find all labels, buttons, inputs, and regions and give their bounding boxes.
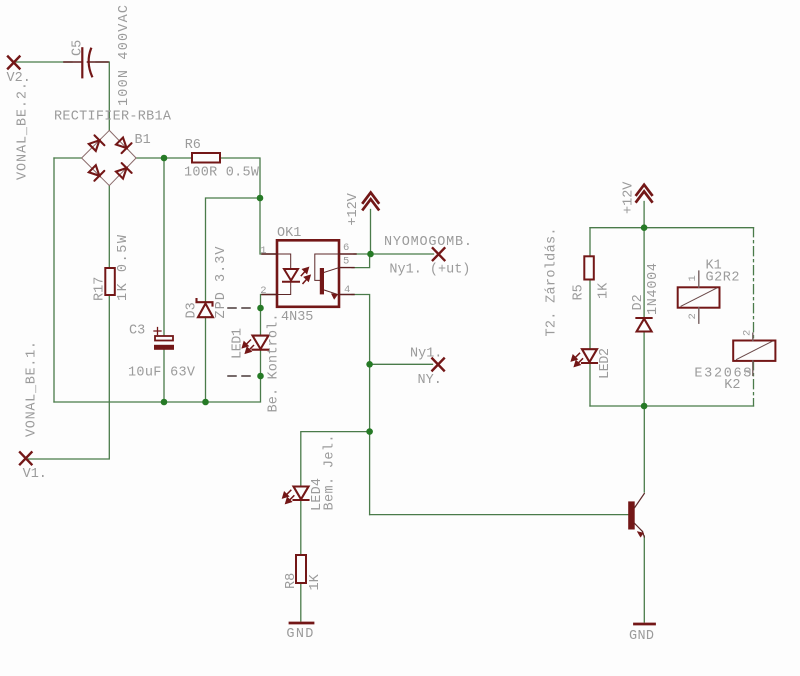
node R6 output [257, 195, 264, 202]
relay coil K2 [733, 333, 775, 375]
pin V1 (X symbol) [20, 452, 32, 464]
wire LED2 to bottom rail [589, 364, 591, 406]
svg-text:1K: 1K [597, 282, 612, 299]
wire OK1 pin5 up to node [352, 255, 370, 268]
wire dash-dot relay link [753, 228, 755, 406]
ground GND right [635, 623, 655, 626]
zener diode D3 [197, 299, 214, 317]
svg-text:R17: R17 [93, 277, 108, 301]
wire node to LED4 [301, 432, 370, 487]
diode bottom-left [89, 165, 105, 181]
node relay top [641, 224, 648, 231]
wire node to OK1 pin1 [260, 198, 276, 254]
supply +12V arrow left [363, 193, 378, 210]
wire bottom rail [54, 376, 261, 402]
svg-text:Be. Kontrol.: Be. Kontrol. [267, 314, 282, 413]
node LED1 top [257, 305, 264, 312]
transistor Q1 collector/emitter [635, 494, 645, 538]
wire +12V left down to node [370, 210, 372, 255]
svg-text:1N4004: 1N4004 [646, 263, 661, 315]
LED LED4 [283, 487, 309, 504]
svg-text:V1.: V1. [23, 467, 47, 482]
diode top-right [116, 138, 132, 154]
wire transistor collector [643, 406, 645, 492]
svg-text:+12V: +12V [346, 192, 361, 225]
wire D2 bottom [643, 332, 645, 406]
optocoupler OK1 internal transistor [315, 254, 339, 294]
optocoupler OK1 box [277, 240, 339, 306]
dashed link upper (LED1 top) [228, 307, 253, 309]
node relay bottom [641, 403, 648, 410]
wire bridge bottom through R17 to V1 [108, 186, 110, 268]
svg-text:10uF 63V: 10uF 63V [128, 366, 196, 381]
svg-text:GND: GND [286, 627, 313, 642]
svg-text:2: 2 [260, 285, 266, 297]
wire C3 bottom to rail [163, 350, 165, 402]
svg-text:2: 2 [687, 313, 699, 319]
rectifier B1 diamond outline [82, 130, 137, 185]
wire transistor emitter to GND [643, 536, 645, 622]
supply +12V arrow right [636, 185, 651, 202]
diode top-left [89, 135, 105, 151]
svg-text:R5: R5 [572, 284, 587, 300]
svg-text:100R 0.5W: 100R 0.5W [184, 166, 260, 181]
wire R8 to GND [300, 583, 302, 621]
optocoupler OK1 internal LED [277, 254, 291, 295]
wire base to transistor [370, 514, 628, 516]
pin NY (X symbol) [432, 359, 444, 371]
svg-text:LED1: LED1 [231, 328, 246, 359]
wire LED1 bottom [260, 350, 262, 376]
wire left rail vertical [53, 158, 55, 402]
node NY branch [366, 361, 373, 368]
node D3 bottom [202, 399, 209, 406]
svg-text:OK1: OK1 [277, 226, 301, 241]
pin V2 (X symbol) [8, 57, 20, 69]
wire relay left branch to R5 [589, 228, 591, 257]
ground GND left [290, 622, 313, 625]
resistor R5 [584, 256, 594, 279]
pin NYOMOGOMB (X symbol) [433, 248, 445, 260]
svg-text:C3: C3 [129, 324, 145, 339]
node +12V OK1 [367, 251, 374, 258]
wire OK1 pin4 down [352, 295, 370, 515]
svg-text:1K: 1K [308, 573, 323, 590]
svg-text:Bem. Jel.: Bem. Jel. [323, 435, 338, 511]
LED LED2 [572, 349, 598, 366]
svg-text:4N35: 4N35 [281, 310, 313, 325]
svg-text:C5: C5 [71, 40, 86, 56]
resistor R6 [192, 153, 220, 163]
svg-text:100N 400VAC: 100N 400VAC [117, 5, 132, 106]
svg-text:B1: B1 [135, 133, 151, 148]
svg-text:+12V: +12V [621, 181, 636, 214]
svg-text:RECTIFIER-RB1A: RECTIFIER-RB1A [54, 110, 172, 125]
transistor Q1 emitter arrowhead [637, 532, 643, 538]
svg-text:K2: K2 [724, 378, 740, 393]
wire D3 bottom to rail [205, 317, 207, 402]
svg-text:LED2: LED2 [598, 348, 613, 379]
wire node to D3 top [206, 198, 261, 303]
svg-text:GND: GND [629, 629, 654, 644]
svg-text:R6: R6 [185, 138, 201, 153]
svg-text:Ny1.: Ny1. [410, 347, 442, 362]
svg-text:NY.: NY. [418, 373, 442, 388]
wire OK1 pin2 to LED1 [261, 295, 277, 336]
svg-text:5: 5 [343, 256, 349, 268]
svg-text:Ny1. (+ut): Ny1. (+ut) [389, 263, 470, 278]
wire C3 top [163, 158, 165, 336]
resistor R8 [296, 555, 306, 583]
wire C5 to bridge top [96, 62, 109, 130]
relay coil K1 [678, 271, 720, 323]
node bridge output [161, 155, 168, 162]
wire OK1 pin6 to NYOMOGOMB pin [354, 253, 434, 255]
wire bridge left to left rail [54, 157, 82, 159]
capacitor C3 (electrolytic) [154, 328, 174, 350]
wire LED4 to R8 [300, 500, 302, 555]
wire R5 to LED2 [589, 280, 591, 350]
wire node to NY pin [370, 363, 433, 365]
capacitor C5 [64, 61, 108, 63]
svg-text:D3: D3 [185, 302, 200, 318]
node C3 bottom [161, 399, 168, 406]
node LED1 bottom [257, 373, 264, 380]
svg-text:2: 2 [742, 330, 754, 336]
wire bridge right to R6 [136, 157, 192, 159]
wire D2 top [643, 228, 645, 318]
wire R6 right, down to node [220, 158, 260, 198]
svg-text:4: 4 [344, 284, 350, 296]
dashed link lower (LED1 bottom) [228, 375, 253, 377]
LED LED1 [243, 336, 269, 353]
wire R17 bottom to V1 pin [28, 295, 109, 459]
wire relay bottom rail [590, 405, 754, 407]
resistor R17 [105, 268, 115, 295]
svg-text:D2: D2 [631, 294, 646, 310]
wire V2 to C5 [16, 61, 72, 63]
transistor Q1 base bar [628, 501, 635, 529]
optocoupler OK1 pin stubs [262, 254, 356, 295]
diode D2 [636, 318, 651, 332]
node LED4 branch [366, 428, 373, 435]
wire +12V right down [643, 202, 645, 228]
svg-text:VONAL_BE.1.: VONAL_BE.1. [24, 341, 39, 437]
svg-text:VONAL_BE.2.: VONAL_BE.2. [16, 82, 31, 180]
svg-text:T2. Zároldás.: T2. Zároldás. [544, 228, 559, 337]
svg-text:NYOMOGOMB.: NYOMOGOMB. [384, 235, 472, 250]
diode bottom-right [116, 163, 132, 179]
svg-text:1: 1 [260, 245, 266, 257]
svg-text:G2R2: G2R2 [706, 271, 740, 286]
svg-text:R8: R8 [284, 573, 299, 589]
wire relay top rail [590, 227, 754, 229]
rectifier B1 diodes [89, 135, 132, 180]
svg-text:ZPD 3.3V: ZPD 3.3V [214, 246, 229, 319]
svg-text:6: 6 [343, 242, 349, 254]
svg-text:1: 1 [687, 275, 699, 281]
